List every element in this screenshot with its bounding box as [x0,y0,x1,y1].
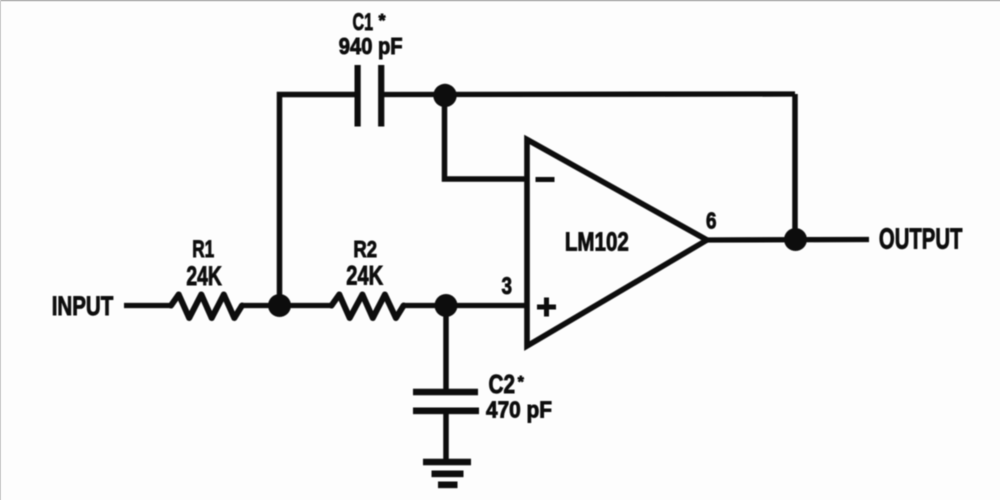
svg-text:R2: R2 [353,236,377,262]
svg-text:C2: C2 [489,369,516,399]
svg-text:LM102: LM102 [565,227,629,257]
svg-text:OUTPUT: OUTPUT [879,223,963,255]
svg-text:24K: 24K [346,261,383,291]
svg-text:*: * [379,10,386,30]
node junction dot C (C1 / feedback) [433,84,456,107]
capacitor C1 [358,65,382,127]
svg-text:R1: R1 [192,236,214,263]
left scan edge line [0,0,1,500]
op-amp minus input sign [536,177,555,182]
wire input lead [124,303,172,308]
wire right vertical feedback [792,94,798,240]
op-amp U1 triangle [527,140,707,347]
wire R1 to R2 [241,303,333,308]
ground [423,462,471,485]
node junction dot D (output) [784,228,807,251]
wire inverting input branch [445,96,529,180]
resistor R2 [332,295,404,319]
svg-text:470 pF: 470 pF [486,397,552,423]
wire pin 3 node down to C2 [443,306,449,390]
resistor R1 [171,295,242,319]
svg-text:C1: C1 [353,9,374,36]
wire C2 to ground [443,413,449,460]
wire output [706,237,869,243]
svg-text:6: 6 [706,208,717,234]
svg-text:*: * [518,374,525,391]
svg-text:940 pF: 940 pF [339,33,403,59]
node junction dot A (R1/R2) [268,294,291,317]
top scan edge line [0,0,1000,1]
svg-text:24K: 24K [186,261,222,291]
op-amp plus input sign [537,298,556,317]
capacitor C2 [413,392,479,411]
wire C1 to top right corner [384,91,795,97]
node junction dot B (pin 3 / C2) [435,294,458,317]
wire left vertical branch [280,95,356,306]
svg-text:INPUT: INPUT [52,291,114,321]
wire R2 to op-amp pin 3 [403,303,528,308]
svg-text:3: 3 [502,273,513,300]
